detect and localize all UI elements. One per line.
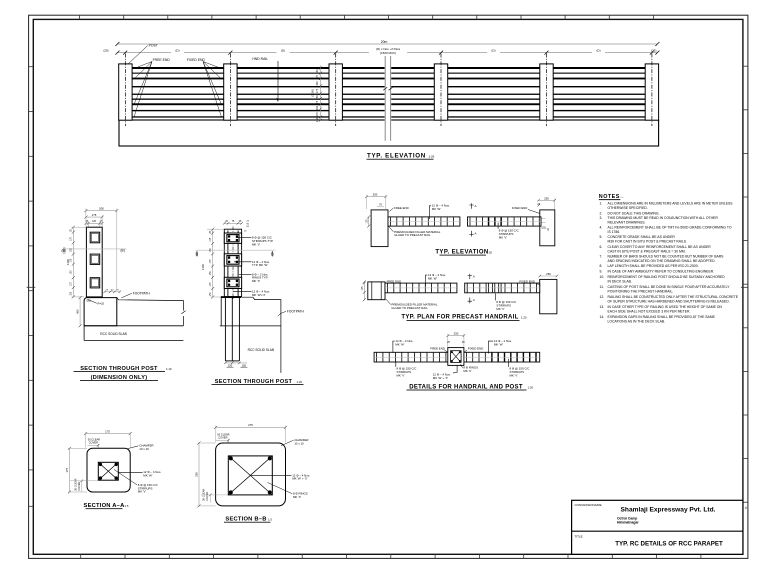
svg-text:1100: 1100 (201, 264, 205, 270)
inner stirrup square (228, 456, 272, 495)
svg-text:TITLE: TITLE (575, 535, 583, 539)
svg-text:DETAILS FOR HANDRAIL AND P: DETAILS FOR HANDRAIL AND POST (409, 384, 523, 390)
post 5 (540, 64, 553, 120)
extension verticals (86, 209, 117, 291)
svg-text:MK 'X': MK 'X' (463, 369, 472, 373)
dimension line total 20m (117, 44, 657, 53)
svg-text:MK 'W': MK 'W' (494, 342, 503, 346)
dim 175 (86, 216, 102, 218)
post 3 (329, 64, 342, 120)
rail centerline (385, 287, 457, 289)
opening 2 (90, 254, 100, 264)
svg-text:THIS DRAWING MUST BE READ IN C: THIS DRAWING MUST BE READ IN CONJUNCTION… (608, 216, 719, 220)
svg-text:1:20: 1:20 (521, 316, 527, 320)
corner bars (99, 463, 118, 480)
outer rounded square (216, 443, 286, 506)
svg-text:FREE END: FREE END (394, 206, 409, 210)
svg-text:GLUED TO PRECAST RAIL: GLUED TO PRECAST RAIL (394, 233, 431, 237)
svg-text:(D): (D) (491, 49, 495, 53)
svg-text:EACH SIDE SHALL NOT EXCEED 3 K: EACH SIDE SHALL NOT EXCEED 3 KN PER METE… (608, 310, 691, 314)
svg-text:175: 175 (366, 219, 369, 224)
svg-text:ALL DIMENSIONS ARE IN MILLIMET: ALL DIMENSIONS ARE IN MILLIMETERS AND LE… (608, 201, 734, 205)
dim 175 top (86, 433, 131, 435)
svg-text:(25): (25) (651, 49, 656, 53)
svg-text:Shamlaji Expressway Pvt. Ltd.: Shamlaji Expressway Pvt. Ltd. (621, 507, 716, 514)
post centerlines dash-dot (125, 54, 652, 127)
rail left segment (388, 217, 460, 226)
svg-text:450: 450 (75, 309, 79, 314)
footpath small dims 75 50 75 (105, 291, 120, 293)
svg-text:MK 'W': MK 'W' (432, 207, 441, 211)
stirrup ticks left (391, 217, 454, 225)
svg-text:FOOTPATH: FOOTPATH (287, 309, 305, 313)
svg-text:SECTION THROUGH POST: SECTION THROUGH POST (80, 366, 158, 372)
svg-text:COVER: COVER (218, 436, 227, 440)
svg-text:(25): (25) (103, 49, 108, 53)
svg-text:TYP. RC DETAILS OF RCC PARAPET: TYP. RC DETAILS OF RCC PARAPET (615, 540, 723, 547)
svg-text:Himmatnagar: Himmatnagar (617, 520, 639, 524)
svg-text:CASTING OF POST SHALL BE DONE: CASTING OF POST SHALL BE DONE IN SINGLE … (608, 285, 731, 289)
svg-text:REINFORCEMENT OF RAILING POST: REINFORCEMENT OF RAILING POST SHOULD BE … (608, 275, 726, 279)
rail right segment (468, 217, 542, 226)
svg-text:DO NOT SCALE THIS DRAWING.: DO NOT SCALE THIS DRAWING. (608, 212, 660, 216)
svg-text:CONCRETE GRADE SHALL BE AS UND: CONCRETE GRADE SHALL BE AS UNDER (608, 235, 676, 239)
dim 275 top (216, 426, 286, 428)
diagonals (228, 456, 272, 495)
kerb left edge (220, 298, 222, 326)
svg-text:1:5: 1:5 (125, 504, 129, 508)
stirrup ticks right (470, 217, 539, 225)
svg-text:175: 175 (315, 112, 319, 117)
dim 250 right (539, 199, 555, 201)
svg-text:RCC SOLID SLAB: RCC SOLID SLAB (248, 348, 274, 352)
kerb top thick (221, 296, 241, 298)
svg-text:250: 250 (546, 272, 551, 276)
dim 500 (86, 210, 117, 212)
svg-text:1:20: 1:20 (528, 385, 534, 389)
svg-text:AND SPACING INDICATED ON THE D: AND SPACING INDICATED ON THE DRAWING SHA… (608, 259, 716, 263)
svg-text:1:20: 1:20 (297, 380, 303, 384)
svg-text:MK 'V': MK 'V' (138, 490, 147, 494)
svg-text:175: 175 (92, 213, 97, 217)
svg-text:150: 150 (315, 95, 319, 100)
svg-text:FIXED END: FIXED END (187, 58, 206, 62)
svg-text:CLEAR COVER TO ANY REINFORCEME: CLEAR COVER TO ANY REINFORCEMENT SHALL B… (608, 245, 712, 249)
dim 25 125 25 (86, 222, 102, 224)
diagonals (98, 462, 118, 480)
right post (540, 210, 555, 246)
svg-text:500: 500 (99, 207, 104, 211)
svg-text:(50): (50) (87, 299, 91, 302)
svg-text:12.: 12. (600, 295, 605, 299)
anchor bars below (225, 298, 239, 361)
svg-text:7.: 7. (600, 254, 603, 258)
svg-text:SECTION THROUGH POST: SECTION THROUGH POST (215, 379, 293, 385)
svg-text:COVER: COVER (205, 492, 209, 501)
left vertical dim chain (212, 229, 214, 297)
vertical rebar lines (227, 231, 229, 297)
svg-text:MK 'W' + 'X': MK 'W' + 'X' (433, 376, 449, 380)
svg-text:175: 175 (315, 100, 319, 105)
svg-text:FIXED END: FIXED END (468, 346, 483, 350)
svg-text:MK 'V': MK 'V' (252, 242, 261, 246)
svg-text:MK 'V': MK 'V' (510, 374, 519, 378)
svg-text:HND RAIL: HND RAIL (252, 57, 268, 61)
rcc solid slab band (84, 325, 183, 327)
svg-text:(100): (100) (62, 247, 66, 253)
svg-text:275: 275 (248, 423, 253, 427)
svg-text:175: 175 (65, 467, 69, 472)
svg-text:MK 'W' + 'X': MK 'W' + 'X' (292, 477, 308, 481)
dim arrows on post centerlines (115, 42, 659, 55)
rail right segment (465, 283, 540, 293)
dim 250 left (198, 443, 200, 506)
svg-text:20m: 20m (381, 40, 388, 44)
center post square (448, 348, 464, 366)
stirrup ticks left (377, 353, 446, 362)
svg-text:RAILING SHALL BE CONSTRUCTED O: RAILING SHALL BE CONSTRUCTED ONLY AFTER … (608, 295, 739, 299)
svg-text:1100: 1100 (66, 259, 70, 265)
svg-text:175: 175 (315, 74, 319, 79)
svg-text:4.: 4. (600, 226, 603, 230)
svg-text:FIXED END: FIXED END (519, 279, 534, 283)
svg-text:1:20: 1:20 (487, 250, 493, 254)
svg-text:MK 'W': MK 'W' (395, 342, 404, 346)
rail spacing dim stack (320, 66, 322, 121)
svg-text:COVER: COVER (89, 440, 98, 444)
svg-text:LOCATIONS AS IN THE DECK SLAB.: LOCATIONS AS IN THE DECK SLAB. (608, 320, 666, 324)
svg-text:(1100): (1100) (311, 89, 315, 96)
svg-text:150: 150 (315, 117, 319, 122)
svg-text:14.: 14. (600, 315, 605, 319)
section cut line B-B (196, 249, 276, 251)
svg-text:9.: 9. (600, 270, 603, 274)
svg-text:IN DECK SLAB.: IN DECK SLAB. (608, 279, 632, 283)
left post (371, 210, 388, 247)
break marks (468, 274, 472, 279)
svg-text:M30 FOR CAST IN SITU POST & PR: M30 FOR CAST IN SITU POST & PRECAST RAIL… (608, 240, 688, 244)
svg-text:RCC SOLID SLAB: RCC SOLID SLAB (100, 332, 126, 336)
svg-text:IS 1786.: IS 1786. (608, 230, 621, 234)
svg-text:SECTION A–A: SECTION A–A (84, 503, 126, 509)
dim 250 above post (448, 335, 464, 337)
svg-text:250: 250 (373, 193, 378, 197)
svg-text:10.: 10. (600, 275, 605, 279)
top dim line (224, 222, 241, 224)
svg-text:TYP. PLAN FOR PRECAST HAND: TYP. PLAN FOR PRECAST HANDRAIL (401, 315, 518, 321)
opening box 3 with stirrup (224, 277, 241, 288)
post 1 (119, 64, 132, 120)
svg-text:(25): (25) (541, 226, 545, 229)
slab top line (220, 325, 281, 327)
dim 250 right (540, 275, 557, 277)
svg-text:MK 'W': MK 'W' (428, 276, 437, 280)
svg-text:CONCESSIONAIRE: CONCESSIONAIRE (575, 503, 602, 507)
post 4 (434, 64, 447, 120)
svg-text:RELEVANT DRAWINGS.: RELEVANT DRAWINGS. (608, 221, 646, 225)
svg-text:1:10: 1:10 (166, 367, 172, 371)
svg-text:MK 'V': MK 'V' (397, 374, 406, 378)
post body (86, 227, 102, 297)
rail centerline (374, 356, 540, 358)
right post in plan (540, 279, 557, 313)
rail left segment (385, 283, 457, 293)
svg-text:SECTION B–B: SECTION B–B (225, 517, 266, 523)
svg-text:1:5: 1:5 (268, 518, 272, 522)
svg-text:IN CASE OF ANY AMBIGUITY REFER: IN CASE OF ANY AMBIGUITY REFER TO CONSUL… (608, 270, 715, 274)
left post end in plan (368, 282, 385, 300)
svg-text:(B): (B) (121, 249, 125, 253)
svg-text:EXPANSION GAPS IN RAILING SHAL: EXPANSION GAPS IN RAILING SHALL BE PROVI… (608, 315, 716, 319)
svg-text:ALL REINFORCEMENT SHALL BE OF: ALL REINFORCEMENT SHALL BE OF TMT Fe-500… (608, 226, 732, 230)
svg-text:MK 'W'+'X': MK 'W'+'X' (252, 293, 266, 297)
svg-text:POST: POST (149, 44, 158, 48)
svg-text:175: 175 (105, 429, 110, 433)
opening 3 (90, 278, 100, 288)
svg-text:IN CASE OTHER TYPE OF RAILING: IN CASE OTHER TYPE OF RAILING IS USED TH… (608, 305, 723, 309)
dim 175 rail height (368, 217, 370, 226)
opening box 2 with stirrup (224, 254, 241, 266)
svg-text:1.: 1. (600, 201, 603, 205)
section cut line B-B (63, 248, 127, 250)
footpath surface right (117, 298, 184, 326)
svg-text:3.: 3. (600, 216, 603, 220)
svg-text:(D): (D) (596, 49, 600, 53)
svg-text:GLUED TO PRECAST RAIL: GLUED TO PRECAST RAIL (391, 306, 428, 310)
svg-text:6.: 6. (600, 245, 603, 249)
svg-text:FREE END: FREE END (387, 279, 402, 283)
svg-text:150: 150 (315, 81, 319, 86)
anchor dim 150 150 (225, 362, 247, 364)
svg-text:FREE END: FREE END (153, 58, 171, 62)
dim 250 left (367, 196, 386, 198)
svg-text:150: 150 (315, 69, 319, 74)
svg-text:(D): (D) (281, 49, 285, 53)
kerb height dim 450 (79, 298, 81, 326)
svg-text:MK 'V': MK 'V' (496, 307, 505, 311)
rail centerline (388, 221, 460, 223)
svg-text::–: :– (621, 195, 624, 199)
expansion gap break (385, 56, 392, 141)
svg-text:MK 'W': MK 'W' (143, 474, 152, 478)
svg-text:FREE END: FREE END (430, 346, 445, 350)
left vertical dim chain (72, 227, 74, 297)
svg-text:(1500 MAX): (1500 MAX) (380, 51, 396, 55)
svg-text:250: 250 (195, 472, 199, 477)
outer rounded square (87, 448, 130, 492)
leader labels right (236, 237, 252, 239)
svg-text:175: 175 (361, 286, 364, 291)
rail full band (374, 352, 540, 362)
svg-text:OF SUPER STRUCTURE HAS HARDENE: OF SUPER STRUCTURE HAS HARDENED AND SHUT… (608, 300, 730, 304)
svg-text:A: A (475, 204, 477, 208)
svg-text:10 x 10: 10 x 10 (139, 447, 149, 451)
svg-text:FIXED END: FIXED END (512, 206, 527, 210)
break mark on footpath edge (181, 311, 185, 314)
kerb below rails (119, 120, 659, 146)
svg-text:CAST IN SITU POST & PRECAST RA: CAST IN SITU POST & PRECAST RAILS = 30 M… (608, 249, 686, 253)
centerline (232, 227, 234, 300)
svg-text:A: A (473, 298, 475, 302)
svg-text:5.: 5. (600, 235, 603, 239)
svg-text:OTHERWISE SPECIFIED.: OTHERWISE SPECIFIED. (608, 206, 648, 210)
svg-text:2.: 2. (600, 212, 603, 216)
svg-text:COVER: COVER (77, 481, 81, 490)
svg-text:A: A (473, 275, 475, 279)
svg-text:MK 'V': MK 'V' (499, 235, 508, 239)
svg-text:250: 250 (544, 196, 549, 200)
svg-text:TYP. ELEVATION: TYP. ELEVATION (435, 249, 488, 255)
svg-text:FOOTPATH: FOOTPATH (133, 291, 151, 295)
svg-text:TYP. ELEVATION: TYP. ELEVATION (367, 153, 426, 160)
svg-text:1:25: 1:25 (429, 155, 435, 159)
svg-text:LAP LENGTH SHALL BE PROVIDED A: LAP LENGTH SHALL BE PROVIDED AS PER IRC:… (608, 264, 699, 268)
post 6 (645, 64, 658, 120)
horizontal ext from dim to post (72, 227, 87, 297)
svg-text:(D): (D) (175, 49, 179, 53)
svg-text:250: 250 (454, 331, 459, 335)
svg-text:10 x 10: 10 x 10 (294, 442, 304, 446)
svg-text:NUMBER OF BARS SHOULD NOT BE C: NUMBER OF BARS SHOULD NOT BE COUNTED BUT… (608, 254, 725, 258)
opening 1 (90, 232, 100, 243)
post outline (224, 229, 241, 296)
svg-text:8.: 8. (600, 264, 603, 268)
inner stirrup square (98, 462, 118, 480)
svg-text:A: A (475, 231, 477, 235)
left vertical dims (363, 282, 365, 300)
footpath surface (242, 297, 281, 373)
svg-text:MK 'X': MK 'X' (293, 495, 302, 499)
svg-text:MK 'X': MK 'X' (252, 279, 261, 283)
svg-text:150: 150 (315, 105, 319, 110)
svg-text:R=25: R=25 (98, 301, 105, 305)
dim 175 left (69, 448, 71, 492)
svg-text:POSITIONING THE PRECAST HANDRA: POSITIONING THE PRECAST HANDRAIL. (608, 290, 674, 294)
corner bars (229, 456, 272, 494)
rails horizontal lines (131, 67, 645, 118)
svg-text:11.: 11. (600, 285, 605, 289)
kerb base block (84, 298, 117, 326)
svg-text:4: 4 (745, 506, 747, 510)
svg-text:175: 175 (315, 88, 319, 93)
svg-text:TYP. MK 'W': TYP. MK 'W' (252, 263, 268, 267)
svg-text:(DIMENSION ONLY): (DIMENSION ONLY) (91, 375, 148, 381)
svg-text:13.: 13. (600, 305, 605, 309)
post 2 (224, 64, 237, 120)
break marks A-A (469, 203, 473, 209)
opening box 1 with stirrup (224, 233, 241, 243)
stirrup ticks right (466, 353, 535, 362)
